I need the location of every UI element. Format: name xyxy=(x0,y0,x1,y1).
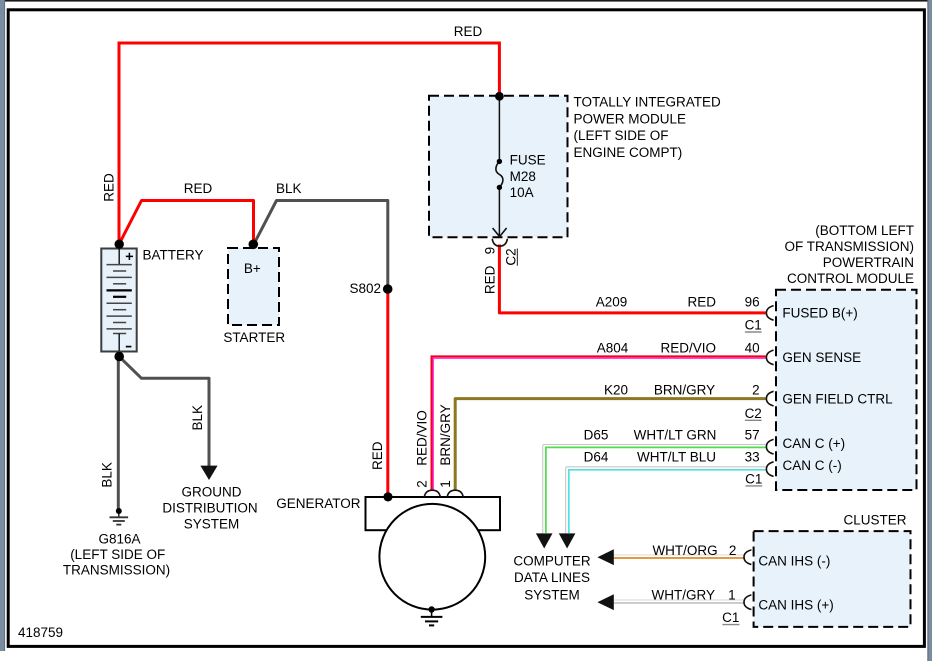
svg-text:CAN IHS (+): CAN IHS (+) xyxy=(758,597,833,612)
svg-text:A209: A209 xyxy=(596,295,628,310)
svg-text:(LEFT SIDE OF: (LEFT SIDE OF xyxy=(574,128,669,143)
wire: blk battery - to G816A ground xyxy=(117,357,120,511)
PCM pin 33 connector arc xyxy=(766,462,773,477)
svg-text:RED/VIO: RED/VIO xyxy=(660,341,716,356)
svg-text:G816A: G816A xyxy=(98,531,140,546)
svg-text:BRN/GRY: BRN/GRY xyxy=(654,382,715,397)
right scrollbar stripe xyxy=(927,0,932,661)
connector C2 cup under TIPM xyxy=(492,239,507,246)
svg-text:2: 2 xyxy=(729,543,737,558)
fuse M28 element xyxy=(496,161,503,187)
svg-text:1: 1 xyxy=(438,480,453,488)
svg-text:C2: C2 xyxy=(745,406,762,421)
svg-text:GEN FIELD CTRL: GEN FIELD CTRL xyxy=(782,391,893,406)
arrow left wht/org xyxy=(597,549,613,565)
svg-text:RED: RED xyxy=(184,181,213,196)
generator pin 2 dome xyxy=(424,490,440,497)
TIPM box (totally integrated power module) xyxy=(429,96,568,238)
svg-text:(BOTTOM LEFT: (BOTTOM LEFT xyxy=(815,223,914,238)
arrow to ground distribution system xyxy=(200,466,217,480)
svg-text:BLK: BLK xyxy=(276,181,302,196)
wire: red battery to starter xyxy=(119,201,253,245)
svg-text:CAN C (+): CAN C (+) xyxy=(783,436,846,451)
battery - sign xyxy=(126,346,132,348)
svg-text:S802: S802 xyxy=(349,281,381,296)
battery box xyxy=(101,249,136,352)
junction dot G816A xyxy=(116,508,122,514)
svg-text:K20: K20 xyxy=(604,382,628,397)
wire: wht/lt blu cyan stripe xyxy=(569,470,766,533)
svg-text:WHT/ORG: WHT/ORG xyxy=(652,543,717,558)
svg-text:CAN IHS (-): CAN IHS (-) xyxy=(758,553,830,568)
junction dot TIPM top xyxy=(495,92,504,101)
svg-text:DISTRIBUTION: DISTRIBUTION xyxy=(162,501,257,516)
wire: blk starter to S802 xyxy=(254,201,388,290)
junction dot generator top xyxy=(383,492,392,501)
battery internal bottom stub xyxy=(118,334,120,352)
svg-text:CONTROL MODULE: CONTROL MODULE xyxy=(787,271,914,286)
fuse M28 feed line inside TIPM xyxy=(498,97,500,162)
svg-text:GENERATOR: GENERATOR xyxy=(276,496,361,511)
wire: red vertical into TIPM xyxy=(498,42,501,96)
junction dot generator ground xyxy=(428,606,434,612)
battery internal top stub xyxy=(118,249,120,265)
wire: red/vio generator pin2 to PCM pin 40 (red part) xyxy=(432,356,766,491)
left scrollbar stripe xyxy=(0,0,5,651)
PCM pin 96 connector arc xyxy=(766,306,773,321)
svg-text:RED/VIO: RED/VIO xyxy=(414,410,429,466)
top thin black line xyxy=(4,0,928,2)
svg-text:BRN/GRY: BRN/GRY xyxy=(438,404,453,465)
wire: red TIPM output to PCM pin 96 xyxy=(499,245,765,313)
cluster pin 2 connector arc xyxy=(744,550,751,565)
arrow left wht/gry xyxy=(597,594,613,610)
svg-text:C1: C1 xyxy=(745,471,762,486)
svg-text:TRANSMISSION): TRANSMISSION) xyxy=(63,563,170,578)
junction dot starter B+ xyxy=(249,240,259,250)
svg-text:C1: C1 xyxy=(722,610,739,625)
svg-text:2: 2 xyxy=(752,382,760,397)
svg-text:RED: RED xyxy=(687,295,716,310)
svg-text:10A: 10A xyxy=(510,185,534,200)
generator pin 1 dome xyxy=(447,490,463,497)
generator circle xyxy=(379,504,485,610)
svg-text:GEN SENSE: GEN SENSE xyxy=(782,350,861,365)
svg-text:(LEFT SIDE OF: (LEFT SIDE OF xyxy=(70,547,165,562)
cluster pin 1 connector arc xyxy=(744,595,751,610)
svg-text:2: 2 xyxy=(414,480,429,488)
wire: red S802 to generator xyxy=(386,289,389,497)
svg-text:RED 9: RED 9 xyxy=(482,247,497,294)
wire: red vertical to battery + xyxy=(118,42,121,244)
svg-text:CLUSTER: CLUSTER xyxy=(843,512,906,527)
junction dot fuse top xyxy=(497,159,502,164)
svg-text:96: 96 xyxy=(745,295,760,310)
svg-text:C1: C1 xyxy=(745,318,762,333)
svg-text:SYSTEM: SYSTEM xyxy=(184,516,240,531)
svg-text:C2: C2 xyxy=(503,248,518,265)
svg-text:GROUND: GROUND xyxy=(182,485,242,500)
svg-text:WHT/LT GRN: WHT/LT GRN xyxy=(634,427,717,442)
PCM pin 2 connector arc xyxy=(766,391,773,406)
wire: blk battery - to ground distribution xyxy=(120,357,209,466)
svg-text:SYSTEM: SYSTEM xyxy=(524,588,580,603)
svg-text:OF TRANSMISSION): OF TRANSMISSION) xyxy=(784,239,914,254)
svg-text:D64: D64 xyxy=(584,450,609,465)
arrow green to computer data lines xyxy=(536,533,553,548)
svg-text:BATTERY: BATTERY xyxy=(143,248,204,263)
generator housing rect xyxy=(366,497,501,530)
junction dot battery + xyxy=(115,240,124,249)
wire: wht/org cluster CAN IHS(-) xyxy=(611,555,745,558)
PCM pin 57 connector arc xyxy=(766,439,773,454)
svg-text:WHT/LT BLU: WHT/LT BLU xyxy=(637,450,716,465)
svg-text:1: 1 xyxy=(728,587,736,602)
svg-text:STARTER: STARTER xyxy=(223,330,285,345)
svg-text:RED: RED xyxy=(454,24,483,39)
cluster box xyxy=(754,531,911,627)
svg-text:A804: A804 xyxy=(597,341,629,356)
svg-text:DATA LINES: DATA LINES xyxy=(514,570,590,585)
PCM pin 40 connector arc xyxy=(766,350,773,365)
wire: brn/gry generator pin1 to PCM pin 2 xyxy=(455,399,766,491)
G816A ground symbol xyxy=(118,511,120,517)
svg-text:WHT/GRY: WHT/GRY xyxy=(652,587,716,602)
svg-text:418759: 418759 xyxy=(18,625,63,640)
arrow cyan to computer data lines xyxy=(559,533,576,548)
svg-text:57: 57 xyxy=(745,427,760,442)
junction dot battery - xyxy=(114,352,124,362)
junction dot S802 xyxy=(383,284,393,294)
svg-text:40: 40 xyxy=(745,341,760,356)
svg-text:RED: RED xyxy=(102,173,117,202)
svg-text:CAN C (-): CAN C (-) xyxy=(783,458,842,473)
svg-text:D65: D65 xyxy=(584,427,609,442)
battery + sign xyxy=(126,253,133,260)
wire: wht/lt grn PCM pin 57 to computer data lines (white core) xyxy=(544,446,766,533)
wire: wht/lt blu PCM pin 33 to computer data lines (white core) xyxy=(567,468,766,533)
fuse output line with arrow xyxy=(498,187,500,236)
underline for rotated C2 xyxy=(516,249,518,266)
svg-text:TOTALLY INTEGRATED: TOTALLY INTEGRATED xyxy=(574,95,722,110)
svg-text:33: 33 xyxy=(745,450,760,465)
svg-text:COMPUTER: COMPUTER xyxy=(513,554,591,569)
svg-text:FUSE: FUSE xyxy=(510,153,546,168)
battery plates xyxy=(107,264,132,266)
svg-text:RED: RED xyxy=(370,441,385,470)
svg-text:POWERTRAIN: POWERTRAIN xyxy=(823,255,914,270)
svg-text:B+: B+ xyxy=(244,261,261,276)
starter box xyxy=(228,248,279,325)
svg-text:BLK: BLK xyxy=(190,405,205,431)
wire: wht/lt grn green stripe xyxy=(546,447,766,533)
wire: red/vio violet stripe xyxy=(433,358,766,491)
fuse output open arrowhead xyxy=(493,228,507,237)
svg-text:POWER MODULE: POWER MODULE xyxy=(574,111,687,126)
wire: wht/gry cluster CAN IHS(+) xyxy=(611,600,745,603)
svg-text:FUSED B(+): FUSED B(+) xyxy=(782,306,857,321)
wire: red top rail horizontal xyxy=(119,42,499,45)
generator ground symbol xyxy=(431,610,433,617)
svg-text:ENGINE COMPT): ENGINE COMPT) xyxy=(574,145,683,160)
svg-text:BLK: BLK xyxy=(100,462,115,488)
PCM box (powertrain control module) xyxy=(776,290,917,490)
junction dot fuse bottom xyxy=(497,185,502,190)
svg-text:M28: M28 xyxy=(510,169,536,184)
